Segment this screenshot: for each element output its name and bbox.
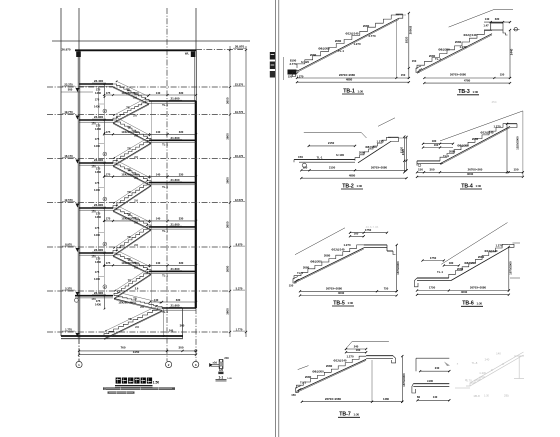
- svg-text:TB-6: TB-6: [462, 301, 474, 307]
- detail TB-8: bottom dimension: [418, 399, 450, 401]
- detail TB-3: bottom left foot: [416, 66, 422, 73]
- svg-text:1.270: 1.270: [493, 125, 501, 129]
- svg-text:1430: 1430: [94, 188, 100, 192]
- left stair section: outer right dimension line x=246: [245, 46, 247, 337]
- detail TB-4: bottom overall dimension: [417, 176, 523, 178]
- svg-text:Φ8@200: Φ8@200: [312, 370, 324, 374]
- detail TB-8: slab: [413, 383, 449, 385]
- svg-text:2080: 2080: [472, 137, 479, 141]
- svg-text:1:30: 1:30: [357, 184, 363, 188]
- detail TB-1: stair flight: [297, 15, 399, 68]
- svg-text:2670X=2080: 2670X=2080: [450, 72, 467, 76]
- svg-text:19.770: 19.770: [235, 110, 244, 114]
- svg-text:Φ8@200: Φ8@200: [464, 261, 476, 265]
- left stair section: title glyph blocks: [116, 378, 121, 384]
- svg-text:2080: 2080: [363, 24, 370, 28]
- left stair section: floor landing slab level 4: [79, 207, 113, 209]
- detail TB-5: right vertical dimension: [396, 245, 398, 291]
- svg-text:2080: 2080: [449, 150, 456, 154]
- svg-text:TL-8: TL-8: [472, 361, 478, 365]
- svg-text:330: 330: [495, 17, 500, 21]
- left stair section: right dimension line x=230: [229, 46, 231, 337]
- svg-text:180: 180: [449, 261, 454, 265]
- svg-text:23.400: 23.400: [94, 203, 104, 207]
- svg-text:1750: 1750: [429, 286, 436, 290]
- left stair section: inner vertical dim line x=104.5: [104, 84, 106, 308]
- detail TB-5: break line: [295, 228, 345, 255]
- svg-text:300: 300: [179, 345, 184, 349]
- svg-text:4780: 4780: [464, 78, 471, 82]
- left stair section: wall grid line axis 3 x=196: [195, 8, 197, 50]
- svg-text:19.770: 19.770: [64, 110, 73, 114]
- left stair section: floor landing slab level 3: [79, 162, 113, 164]
- svg-text:160: 160: [434, 143, 439, 147]
- detail TB-8: top dimension: [420, 370, 449, 372]
- detail TB-3: right vertical dimension: [509, 30, 511, 78]
- detail TB-3: break line to adjacent slab: [449, 10, 494, 28]
- left stair section: stair flight F8: [113, 227, 151, 253]
- detail TB-1: extension line: [395, 20, 397, 78]
- svg-text:8.970: 8.970: [236, 242, 243, 246]
- detail TB-6: bottom landing slab: [417, 277, 449, 279]
- svg-text:1430: 1430: [95, 127, 102, 131]
- svg-text:2080: 2080: [335, 39, 342, 43]
- left stair section: lower storey wall x=182.5: [182, 308, 184, 338]
- svg-text:330: 330: [179, 130, 184, 134]
- svg-text:454: 454: [492, 100, 497, 104]
- svg-text:150: 150: [500, 72, 505, 76]
- svg-text:240: 240: [169, 329, 174, 333]
- svg-text:150: 150: [291, 393, 296, 397]
- svg-text:TL-1: TL-1: [443, 154, 449, 158]
- svg-text:2150: 2150: [329, 165, 336, 169]
- svg-text:WL: WL: [185, 52, 190, 56]
- svg-text:1:30: 1:30: [354, 412, 360, 416]
- svg-text:TL-1: TL-1: [162, 274, 168, 278]
- detail TB-2: bottom dimension chain: [301, 169, 406, 171]
- left stair section: floor landing slab level 1: [79, 83, 113, 85]
- left stair section: floor landing slab level 2: [79, 119, 113, 121]
- svg-text:60: 60: [417, 395, 421, 399]
- left stair section: door circle marker at level 2 landing: [75, 298, 79, 302]
- left stair section: wall grid line axis 1 x=79: [78, 8, 80, 50]
- detail TB-4: right vertical dim lines: [506, 124, 508, 173]
- detail TB-4: top landing stub: [507, 123, 517, 125]
- svg-text:120: 120: [219, 369, 224, 372]
- svg-text:Φ8@200: Φ8@200: [318, 47, 330, 51]
- svg-text:26.970: 26.970: [235, 44, 245, 48]
- svg-text:240: 240: [435, 366, 440, 370]
- svg-text:2.6: 2.6: [134, 133, 138, 137]
- svg-text:26.970: 26.970: [62, 48, 71, 52]
- left stair section: inner vertical dim line x=151.5: [151, 101, 153, 308]
- svg-text:Φ8@200: Φ8@200: [365, 145, 377, 149]
- svg-text:2.6: 2.6: [140, 305, 144, 309]
- detail TB-5: dims above landing: [350, 232, 387, 234]
- svg-text:2.6: 2.6: [135, 325, 139, 329]
- svg-text:TL-1: TL-1: [316, 155, 322, 159]
- svg-text:TB-2: TB-2: [342, 183, 354, 189]
- sheet fold border label: [270, 52, 275, 60]
- svg-text:TB: TB: [126, 105, 130, 109]
- svg-text:2080: 2080: [326, 364, 333, 368]
- left stair section: notes smudge lines: [103, 387, 175, 390]
- svg-text:160: 160: [356, 348, 361, 352]
- left stair section: stair flight F7: [113, 208, 151, 227]
- detail TB-6: bottom dimension chain: [417, 290, 509, 292]
- left stair section: grid bubble axis 3: [193, 361, 199, 367]
- svg-text:Φ12@140: Φ12@140: [484, 249, 497, 253]
- detail TB-8: adjacent slab bracket: [416, 357, 449, 359]
- detail TB-3: end level marker: [514, 28, 517, 31]
- svg-text:150: 150: [298, 155, 303, 159]
- svg-text:140: 140: [156, 91, 161, 95]
- svg-text:Φ8@200: Φ8@200: [310, 260, 322, 264]
- detail TB-2: break line to adjacent floor: [304, 131, 361, 133]
- left stair section: storey dim lines on wall: [97, 87, 99, 118]
- svg-text:Φ8@200: Φ8@200: [438, 48, 450, 52]
- svg-text:1430: 1430: [95, 260, 102, 264]
- svg-text:1480: 1480: [383, 397, 390, 401]
- svg-text:Φ8@200: Φ8@200: [457, 144, 469, 148]
- svg-text:1.270: 1.270: [343, 243, 351, 247]
- detail TB-4: left vertical dimension: [403, 137, 405, 173]
- svg-text:175: 175: [106, 130, 111, 134]
- left stair section: half landing slab 4: [149, 226, 196, 228]
- svg-text:1:30: 1:30: [348, 301, 354, 305]
- svg-text:3600: 3600: [226, 97, 230, 104]
- detail TB-6: right vertical dimension: [508, 247, 510, 291]
- left stair section: floor level line 23.370: [47, 86, 230, 88]
- left stair section: stair flight F6: [113, 183, 151, 208]
- svg-text:1430: 1430: [95, 91, 102, 95]
- left stair section: stair flight F10: [114, 271, 151, 295]
- detail TB-5: bottom overall dimension: [300, 295, 397, 297]
- detail TB-4: stair flight: [440, 124, 510, 161]
- svg-text:3150: 3150: [133, 350, 140, 354]
- left stair section: half landing slab 1: [149, 100, 196, 102]
- svg-text:1120: 1120: [400, 146, 404, 153]
- detail TB-1: bottom overall dimension: [297, 81, 409, 83]
- svg-text:150: 150: [514, 167, 519, 171]
- left stair section: floor level line 8.970: [47, 246, 230, 248]
- svg-text:175: 175: [95, 137, 100, 141]
- left stair section: floor landing slab level 6: [75, 295, 113, 297]
- detail TB-7: bottom dimension chain: [302, 401, 403, 403]
- svg-text:21.600: 21.600: [171, 136, 180, 140]
- svg-text:TL-1: TL-1: [297, 271, 303, 275]
- svg-text:1430: 1430: [95, 303, 102, 307]
- svg-text:2080: 2080: [455, 40, 462, 44]
- faint arrow marks: [444, 362, 450, 367]
- svg-text:1870/2900: 1870/2900: [396, 261, 400, 275]
- svg-text:1430: 1430: [95, 170, 102, 174]
- svg-text:1.270: 1.270: [376, 140, 384, 144]
- left stair section: top-left dim lines: [61, 91, 93, 93]
- svg-text:330: 330: [179, 172, 184, 176]
- svg-text:140: 140: [156, 130, 161, 134]
- svg-text:150: 150: [412, 59, 417, 63]
- detail TB-2: right vertical dimension: [406, 137, 408, 170]
- svg-text:175: 175: [95, 226, 100, 230]
- detail TB-1: right vertical dimension: [408, 13, 410, 78]
- left stair section: half landing slab 6: [162, 307, 196, 309]
- svg-text:h=120: h=120: [301, 60, 310, 64]
- svg-text:140: 140: [433, 395, 438, 399]
- svg-text:4630: 4630: [461, 290, 468, 294]
- detail TB-2: top landing stub: [388, 136, 399, 138]
- svg-text:1:30: 1:30: [358, 89, 364, 93]
- svg-text:2.6: 2.6: [134, 243, 138, 247]
- svg-text:3600: 3600: [226, 308, 230, 315]
- svg-text:175: 175: [106, 91, 111, 95]
- svg-text:2.6: 2.6: [133, 96, 137, 100]
- detail TB-4: bottom dimension chain: [417, 171, 523, 173]
- detail TB-3: bottom overall dimension: [424, 82, 510, 84]
- detail TB-6: bottom overall dimension: [417, 294, 509, 296]
- detail TB-3: bottom dimension chain: [424, 77, 510, 79]
- svg-text:2.6: 2.6: [135, 287, 139, 291]
- left stair section: wall section detail 1-1: [218, 359, 220, 368]
- svg-text:TL-1: TL-1: [435, 57, 441, 61]
- svg-text:2.6: 2.6: [134, 221, 138, 225]
- svg-text:2080: 2080: [310, 53, 317, 57]
- svg-text:2.6: 2.6: [134, 155, 138, 159]
- svg-text:4880: 4880: [349, 173, 356, 177]
- left stair section: stair flight F11: [114, 296, 162, 308]
- svg-text:TB-7: TB-7: [339, 412, 351, 418]
- detail TB-5: bottom left foot: [293, 277, 299, 284]
- detail TB-1: bottom dimension chain: [297, 77, 409, 79]
- svg-text:23.400: 23.400: [94, 115, 104, 119]
- svg-text:1430: 1430: [95, 215, 102, 219]
- detail TB-7: extension vertical: [371, 360, 373, 402]
- svg-text:175: 175: [95, 98, 100, 102]
- svg-text:TL-1: TL-1: [162, 143, 168, 147]
- detail TB-1: bottom left beam section: [288, 70, 297, 75]
- left stair section: floor level line 12.570: [47, 202, 230, 204]
- svg-text:TB-5: TB-5: [333, 300, 345, 306]
- svg-text:1.70: 1.70: [466, 378, 472, 382]
- svg-text:1:30: 1:30: [473, 90, 479, 94]
- svg-text:4630: 4630: [467, 172, 474, 176]
- svg-text:140: 140: [156, 217, 161, 221]
- svg-text:23.370: 23.370: [235, 82, 244, 86]
- left stair section: stair flight F5: [113, 163, 151, 183]
- svg-text:150: 150: [303, 165, 308, 169]
- svg-text:175: 175: [96, 88, 101, 92]
- svg-text:750: 750: [384, 287, 389, 291]
- left stair section: bottom dimension chain: [79, 350, 196, 352]
- svg-text:1-1: 1-1: [218, 376, 223, 380]
- svg-text:1820: 1820: [405, 36, 409, 43]
- svg-text:150: 150: [401, 73, 406, 77]
- svg-text:175: 175: [96, 299, 101, 303]
- left stair section: grid bubble axis 1: [78, 338, 80, 361]
- left stair section: stair flight F9: [113, 253, 151, 271]
- left stair section: horizontal grid line y=41: [52, 40, 250, 42]
- svg-text:140: 140: [156, 261, 161, 265]
- svg-text:TL-1: TL-1: [300, 381, 306, 385]
- svg-text:23.400: 23.400: [94, 248, 104, 252]
- svg-text:140: 140: [496, 352, 501, 356]
- left stair section: vertical grid line axis A outer face x=61: [60, 8, 62, 336]
- left stair section: stair flight F12: [104, 308, 162, 336]
- svg-text:2670X=2080: 2670X=2080: [470, 286, 487, 290]
- svg-text:2080: 2080: [303, 266, 310, 270]
- svg-text:2900/2: 2900/2: [409, 25, 413, 34]
- svg-text:1.2W: 1.2W: [479, 371, 486, 375]
- svg-text:1870/2900: 1870/2900: [508, 261, 512, 275]
- left stair section: stair flight F4: [113, 140, 151, 163]
- left stair section: right roof beam: [191, 51, 196, 57]
- svg-text:2.6: 2.6: [133, 114, 137, 118]
- detail TB-7: dims above landing: [346, 348, 366, 350]
- svg-text:180: 180: [432, 139, 437, 143]
- svg-text:2670X=260: 2670X=260: [468, 167, 483, 171]
- svg-text:175: 175: [96, 212, 101, 216]
- svg-text:12.570: 12.570: [64, 198, 73, 202]
- svg-text:TL-1: TL-1: [162, 229, 168, 233]
- left stair section: left roof beam: [76, 51, 81, 57]
- detail TB-2: bottom landing slab: [294, 159, 355, 161]
- svg-text:175: 175: [95, 270, 100, 274]
- sheet fold border double line: [275, 0, 277, 437]
- left stair section: stair flight F2: [113, 101, 149, 120]
- svg-text:Φ12@140: Φ12@140: [331, 248, 344, 252]
- svg-text:2.770: 2.770: [368, 34, 376, 38]
- left stair section: half landing slab 3: [149, 182, 196, 184]
- svg-text:2080: 2080: [478, 255, 485, 259]
- svg-text:1:30: 1:30: [484, 395, 489, 398]
- left stair section: half landing slab 2: [149, 139, 196, 141]
- svg-text:140: 140: [485, 17, 490, 21]
- svg-text:150: 150: [418, 167, 423, 171]
- svg-text:150: 150: [289, 284, 294, 288]
- svg-text:21.600: 21.600: [171, 267, 180, 271]
- svg-text:1:30: 1:30: [477, 301, 483, 305]
- svg-text:23.400: 23.400: [94, 79, 104, 83]
- left stair section: bottom overall dimension: [79, 354, 196, 356]
- detail TB-6: stair flight: [449, 244, 509, 278]
- svg-text:140: 140: [156, 172, 161, 176]
- svg-text:TB: TB: [127, 212, 131, 216]
- svg-text:TL-1: TL-1: [162, 310, 168, 314]
- detail TB-7: break line left: [298, 366, 309, 370]
- detail TB-5: top landing with step: [364, 244, 387, 246]
- svg-text:TL-1: TL-1: [338, 49, 344, 53]
- svg-text:150: 150: [288, 75, 293, 79]
- svg-text:3600: 3600: [226, 265, 230, 272]
- svg-text:1.270: 1.270: [353, 42, 361, 46]
- svg-text:1430: 1430: [94, 277, 100, 281]
- svg-text:Φ12@140: Φ12@140: [345, 32, 358, 36]
- left stair section: floor level line 1.770: [47, 331, 230, 333]
- svg-text:330: 330: [179, 217, 184, 221]
- svg-text:240: 240: [354, 344, 359, 348]
- detail TB-3: stair flight: [417, 31, 492, 70]
- svg-text:1.47: 1.47: [483, 24, 489, 28]
- left stair section: grid line axis 2 x=167 dash-dot: [166, 8, 168, 361]
- svg-text:h=100: h=100: [336, 153, 345, 157]
- svg-text:2080: 2080: [359, 151, 366, 155]
- svg-text:1.270: 1.270: [495, 244, 503, 248]
- svg-text:23.400: 23.400: [94, 291, 104, 295]
- svg-text:1.770: 1.770: [236, 327, 243, 331]
- detail TB-4: dims above landing: [423, 143, 453, 145]
- svg-text:21.600: 21.600: [171, 304, 180, 308]
- left stair section: floor level line 16.170: [47, 158, 230, 160]
- svg-text:23.370: 23.370: [64, 82, 73, 86]
- svg-text:1:20: 1:20: [227, 378, 232, 380]
- svg-text:175: 175: [96, 167, 101, 171]
- svg-text:330: 330: [179, 91, 184, 95]
- svg-text:21.600: 21.600: [171, 178, 180, 182]
- detail TB-2: dimension above landing: [309, 145, 355, 147]
- detail TB-5: bottom dimension chain: [300, 290, 397, 292]
- detail TB-6: top landing stub: [509, 244, 514, 247]
- svg-text:16.170: 16.170: [235, 154, 244, 158]
- svg-text:1B-8: 1B-8: [473, 394, 480, 398]
- svg-text:Φ12@140: Φ12@140: [333, 359, 346, 363]
- detail TB-6: far right level tick: [510, 277, 520, 279]
- svg-text:TL-1: TL-1: [437, 270, 443, 274]
- svg-text:4630: 4630: [338, 291, 345, 295]
- left stair section: floor level line 19.770: [47, 114, 230, 116]
- svg-text:1870/2900: 1870/2900: [402, 373, 406, 387]
- svg-text:TB: TB: [127, 125, 131, 129]
- left stair section: ground floor slab: [61, 335, 183, 337]
- svg-text:2670X=2080: 2670X=2080: [325, 397, 342, 401]
- detail TB-7: right vertical dimension: [401, 356, 403, 402]
- svg-text:TB: TB: [126, 87, 130, 91]
- faint stair detail TB-8 (watermark-like): [455, 352, 524, 388]
- detail TB-6: dims above landing: [423, 260, 444, 262]
- svg-text:3600: 3600: [226, 177, 230, 184]
- svg-text:2.770: 2.770: [289, 62, 297, 66]
- svg-text:1:50: 1:50: [153, 381, 160, 385]
- svg-text:TL-1: TL-1: [162, 185, 168, 189]
- detail TB-6: break line: [441, 223, 507, 265]
- svg-text:1.270: 1.270: [346, 355, 354, 359]
- left stair section: lower storey dimension: [163, 309, 165, 336]
- detail TB-4: break line to adjacent slab: [440, 111, 523, 141]
- svg-text:5.370: 5.370: [236, 286, 243, 290]
- svg-text:TB: TB: [127, 168, 131, 172]
- svg-text:5.370: 5.370: [65, 286, 72, 290]
- left stair section: grid bubble axis 2: [166, 361, 172, 367]
- svg-text:500: 500: [68, 88, 73, 92]
- detail TB-3: top dimension 140: [484, 21, 510, 23]
- left stair section: stair flight F3: [113, 120, 151, 140]
- svg-text:2.6: 2.6: [134, 265, 138, 269]
- svg-text:1.770: 1.770: [65, 327, 72, 331]
- svg-text:175: 175: [106, 217, 111, 221]
- svg-text:2670X=2080: 2670X=2080: [371, 165, 388, 169]
- detail TB-4: bottom landing slab: [417, 160, 440, 162]
- svg-text:175: 175: [95, 181, 100, 185]
- svg-text:TB-4: TB-4: [461, 183, 473, 189]
- svg-text:Φ12@140: Φ12@140: [463, 33, 476, 37]
- left stair section: floor landing slab level 5: [79, 252, 113, 254]
- svg-text:8.970: 8.970: [65, 242, 72, 246]
- svg-text:2.6: 2.6: [134, 199, 138, 203]
- detail TB-7: top landing slab: [366, 355, 393, 357]
- svg-text:300: 300: [430, 167, 435, 171]
- svg-text:TL-1: TL-1: [162, 103, 168, 107]
- svg-text:46.6-7.06: 46.6-7.06: [366, 225, 379, 229]
- svg-text:240: 240: [485, 358, 490, 362]
